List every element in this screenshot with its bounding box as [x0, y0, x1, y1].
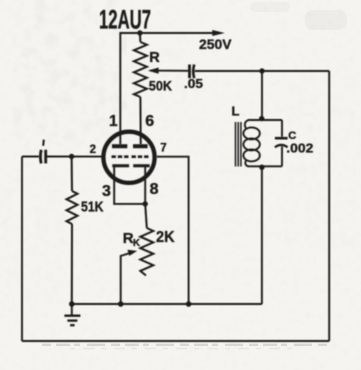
- node output junction: [259, 68, 264, 73]
- svg-text:3: 3: [102, 183, 111, 200]
- tube V1 12AU7 envelope: [103, 132, 154, 183]
- cathode 1: [112, 166, 145, 204]
- wire left feedback rail: [21, 157, 23, 342]
- wire tank bottom bus: [248, 165, 282, 167]
- node tank top: [259, 116, 264, 121]
- node tank bottom: [259, 165, 264, 170]
- label J tick: [42, 140, 45, 146]
- svg-text:2K: 2K: [156, 229, 175, 246]
- svg-text:.002: .002: [286, 141, 313, 156]
- wire tank top feed: [261, 71, 263, 120]
- cathode 2: [133, 166, 150, 204]
- inductor core bars: [236, 122, 241, 167]
- svg-text:8: 8: [150, 181, 159, 198]
- wire output junction to right feedback rail: [262, 70, 329, 72]
- wire grid 1 lead: [47, 156, 105, 158]
- wire R wiper to coupling cap: [150, 70, 188, 72]
- svg-text:51K: 51K: [81, 200, 104, 216]
- svg-text:.05: .05: [184, 77, 203, 91]
- resistor 51K grid leak: [67, 157, 78, 305]
- rheostat RK 2K cathode bias: [140, 204, 153, 276]
- node B+ / R junction: [137, 30, 142, 35]
- wire ground rail: [72, 303, 262, 305]
- node ground rail / 51K: [69, 301, 75, 307]
- wire RK wiper: [121, 253, 130, 304]
- capacitor J grid coupling: [40, 150, 45, 164]
- grid 1 dashes: [112, 155, 129, 158]
- svg-text:L: L: [232, 104, 240, 119]
- grid 2 dashes: [132, 155, 149, 158]
- plate 2: [133, 144, 148, 148]
- arrowhead 250V supply: [212, 30, 225, 36]
- svg-text:K: K: [133, 238, 141, 249]
- plate 1: [112, 144, 127, 148]
- svg-text:250V: 250V: [199, 36, 232, 52]
- node cathode join: [143, 201, 148, 206]
- wire B+ top rail: [120, 33, 214, 144]
- wire left rail to grid capacitor: [22, 156, 39, 158]
- wire grid 2 to ground rail: [157, 157, 189, 304]
- arrowhead R wiper: [148, 68, 159, 74]
- ground: [64, 304, 80, 325]
- arrowhead RK wiper: [127, 250, 137, 256]
- wire tank top bus: [248, 119, 282, 121]
- wire bottom feedback rail: [22, 340, 329, 342]
- capacitor C .002: [275, 120, 288, 166]
- svg-text:6: 6: [145, 113, 154, 130]
- node grid 1 junction: [69, 154, 74, 159]
- node ground rail / RK wiper: [118, 301, 124, 307]
- wire tank return to ground rail: [261, 167, 263, 304]
- capacitor .05 coupling: [190, 65, 263, 79]
- svg-text:12AU7: 12AU7: [99, 5, 151, 35]
- inductor L: [243, 120, 259, 166]
- svg-text:2: 2: [90, 144, 96, 156]
- potentiometer R 50K (plate load): [134, 33, 147, 144]
- svg-text:7: 7: [160, 142, 166, 154]
- svg-text:50K: 50K: [149, 77, 172, 93]
- svg-text:R: R: [149, 50, 160, 66]
- wire right feedback rail: [328, 71, 330, 341]
- svg-text:1: 1: [109, 113, 118, 130]
- node ground rail / grid 2: [186, 301, 192, 307]
